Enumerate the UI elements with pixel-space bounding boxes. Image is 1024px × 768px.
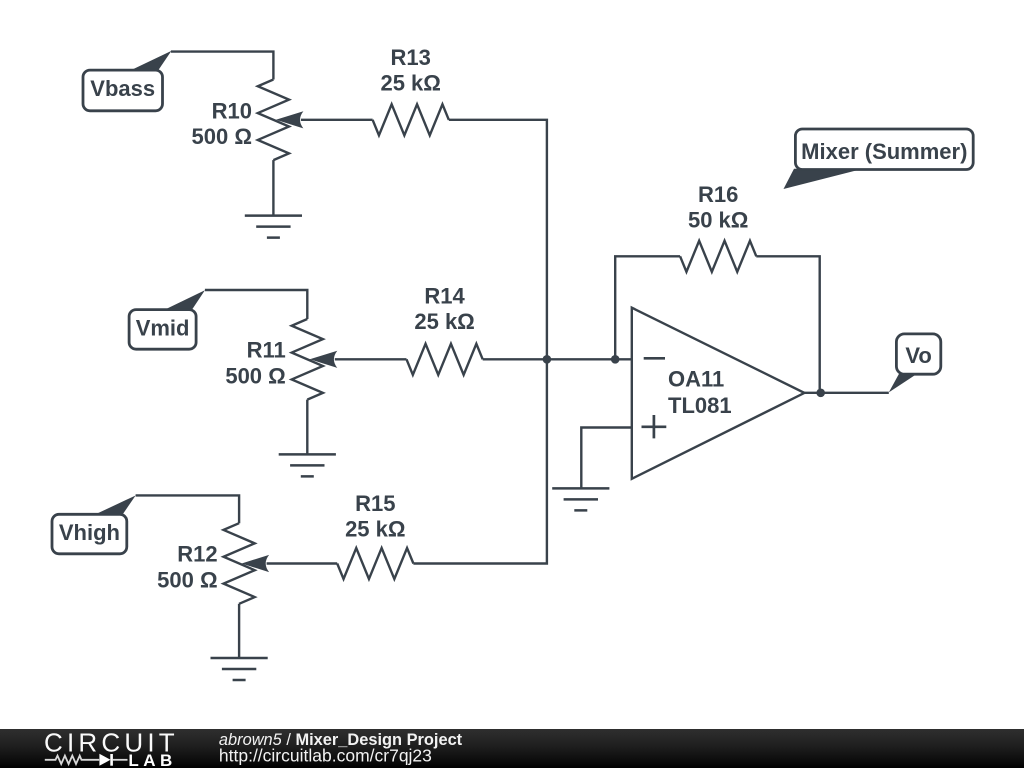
svg-text:R12: R12 — [177, 542, 217, 567]
svg-text:500 Ω: 500 Ω — [225, 363, 285, 388]
svg-text:Vo: Vo — [905, 343, 931, 368]
svg-text:R14: R14 — [424, 284, 465, 309]
svg-text:Vmid: Vmid — [136, 315, 190, 340]
svg-text:R10: R10 — [212, 98, 252, 123]
svg-text:R11: R11 — [247, 338, 286, 363]
svg-text:LAB: LAB — [128, 751, 176, 768]
svg-text:25 kΩ: 25 kΩ — [380, 70, 440, 95]
svg-text:Mixer (Summer): Mixer (Summer) — [801, 139, 967, 164]
svg-text:25 kΩ: 25 kΩ — [345, 516, 405, 541]
svg-text:http://circuitlab.com/cr7qj23: http://circuitlab.com/cr7qj23 — [219, 746, 432, 766]
svg-text:TL081: TL081 — [668, 393, 732, 418]
svg-text:Vhigh: Vhigh — [59, 520, 120, 545]
svg-text:Vbass: Vbass — [90, 76, 155, 101]
svg-text:R13: R13 — [391, 45, 431, 70]
svg-text:500 Ω: 500 Ω — [157, 567, 217, 592]
svg-text:25 kΩ: 25 kΩ — [414, 309, 474, 334]
svg-text:500 Ω: 500 Ω — [192, 124, 252, 149]
svg-text:R16: R16 — [698, 182, 738, 207]
svg-text:R15: R15 — [355, 491, 395, 516]
svg-text:50 kΩ: 50 kΩ — [688, 207, 748, 232]
svg-text:OA11: OA11 — [668, 366, 724, 391]
